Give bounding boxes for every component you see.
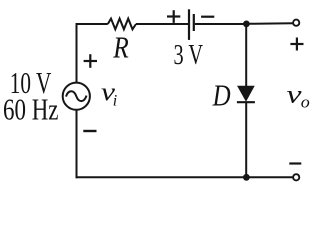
plus sign at source top	[84, 60, 97, 62]
resistor R	[108, 19, 136, 30]
wire top-left horizontal segment	[77, 23, 108, 24]
wire bottom horizontal	[76, 176, 293, 178]
output terminal bottom (open circle)	[293, 174, 299, 180]
plus sign output top	[290, 43, 303, 45]
svg-text:o: o	[301, 92, 310, 111]
svg-text:D: D	[212, 78, 231, 113]
output terminal top (open circle)	[293, 20, 299, 26]
node junction dot top	[243, 21, 250, 28]
wire resistor to battery	[136, 23, 188, 25]
svg-text:60 Hz: 60 Hz	[3, 92, 59, 127]
minus sign battery right	[201, 16, 214, 18]
svg-text:R: R	[112, 29, 128, 64]
wire battery to node	[195, 23, 247, 25]
minus sign output bottom	[289, 162, 301, 164]
wire node to top terminal	[246, 22, 293, 25]
battery E negative plate (short)	[193, 14, 195, 31]
diode D triangle	[238, 86, 254, 101]
wire diode branch lower	[245, 102, 247, 178]
minus sign at source bottom	[83, 130, 96, 132]
wire diode branch upper	[245, 24, 247, 87]
sine wave inside source	[66, 91, 87, 101]
diode D cathode bar	[237, 101, 255, 103]
wire left vertical upper	[76, 23, 78, 83]
svg-text:3 V: 3 V	[174, 39, 204, 71]
wire left vertical lower	[76, 110, 78, 179]
svg-text:i: i	[113, 93, 117, 110]
source vi circle	[63, 83, 90, 110]
battery E positive plate (long)	[188, 9, 190, 40]
node junction dot bottom	[243, 174, 250, 181]
plus sign battery left	[167, 15, 180, 17]
